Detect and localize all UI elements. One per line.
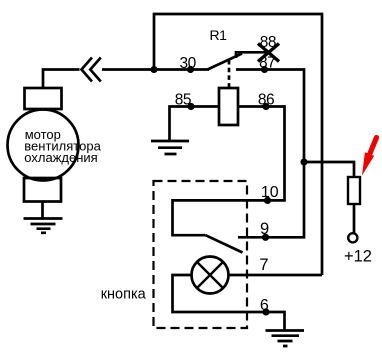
relay R1 switch blade 30 to 88	[208, 54, 243, 70]
button pin 9 node	[262, 234, 269, 241]
pin 30 node	[187, 66, 194, 73]
pin 86 node	[262, 103, 269, 110]
svg-text:6: 6	[260, 297, 269, 314]
svg-text:30: 30	[180, 55, 197, 72]
svg-text:87: 87	[259, 54, 275, 71]
motor M1 top brush block	[25, 88, 62, 109]
svg-text:кнопка: кнопка	[101, 286, 147, 302]
wire motor top to connector	[43, 70, 80, 89]
wire top loop from node at 30 up over to right side down to button pin 7	[154, 14, 322, 275]
svg-text:охлаждения: охлаждения	[24, 150, 97, 165]
motor M1 bottom brush block	[24, 178, 61, 202]
wire contact 85 to ground	[170, 107, 220, 142]
terminal +12 circle	[348, 233, 357, 242]
svg-text:+12: +12	[344, 248, 372, 266]
button switch blade	[206, 235, 243, 252]
relay R1 actuator dashed link	[228, 60, 231, 88]
wire fuse branch	[304, 162, 354, 177]
ground G1 for motor	[24, 219, 63, 233]
connector X1 chevron 2	[90, 58, 101, 82]
ground G3 for button pin 6	[266, 331, 305, 347]
lamp HL1 circle	[192, 257, 229, 294]
svg-text:7: 7	[259, 256, 268, 274]
wire contact 87 to fuse junction down to button pin 9	[236, 70, 304, 238]
junction node at 30 wire and top loop	[150, 66, 157, 73]
wire fuse to +12 terminal	[353, 204, 356, 233]
wire contact 88 stub	[236, 52, 267, 58]
button pin 10 node	[264, 197, 271, 204]
relay R1 coil	[219, 88, 238, 125]
lamp HL1 cross	[197, 262, 223, 288]
wire lamp left to pin 6 and ground	[173, 275, 285, 331]
button pin 6 node	[262, 308, 269, 315]
svg-text:10: 10	[261, 184, 279, 201]
red arrow pointing at fuse	[362, 138, 377, 176]
ground G2 for contact 85	[151, 141, 189, 154]
svg-text:9: 9	[260, 220, 269, 238]
svg-text:R1: R1	[210, 27, 228, 43]
motor M1 body circle	[8, 110, 79, 181]
pin 85 node	[187, 103, 194, 110]
wire connector to contact 30 and switch pivot	[102, 68, 209, 71]
wire contact 86 to button pin 10 and switch blade inside button	[173, 107, 285, 236]
pin 87 node	[261, 66, 268, 73]
fuse junction node	[300, 158, 307, 165]
wire lamp right to pin 7	[229, 274, 323, 277]
svg-text:85: 85	[175, 91, 191, 108]
crossed-out mark over contact 88	[258, 44, 279, 62]
button dashed enclosure	[154, 181, 248, 328]
wire motor bottom to ground	[41, 202, 44, 219]
svg-text:86: 86	[258, 91, 274, 108]
fuse F1	[348, 177, 360, 204]
connector X1 chevron 1	[82, 58, 93, 82]
svg-text:88: 88	[260, 34, 276, 51]
